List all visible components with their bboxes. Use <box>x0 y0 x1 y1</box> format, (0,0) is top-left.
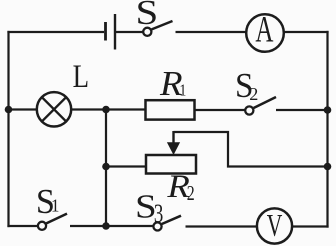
switch S1 blade (open) <box>46 214 67 224</box>
svg-text:A: A <box>255 9 273 50</box>
junction dot: right wire x S2 row <box>324 106 332 114</box>
svg-text:L: L <box>73 57 89 94</box>
wire S3 to voltmeter <box>186 225 258 227</box>
wire top row: left corner to battery negative plate <box>7 31 104 33</box>
rheostat R2 wiper arrow stem <box>172 131 174 145</box>
svg-text:2: 2 <box>249 84 258 104</box>
switch S1 pivot circle <box>38 222 46 230</box>
wire S2 to right wire <box>276 109 328 111</box>
label R2 subscript 2 <box>187 182 195 204</box>
battery positive plate (long bar) <box>114 14 116 50</box>
svg-text:2: 2 <box>187 182 195 204</box>
label R1 (resistor) <box>159 64 183 103</box>
svg-text:3: 3 <box>154 199 163 228</box>
rheostat R2 body <box>146 155 196 174</box>
switch S3 pivot circle <box>153 222 161 230</box>
junction dot: middle wire top (lamp row) <box>102 106 110 114</box>
svg-text:1: 1 <box>51 195 59 216</box>
svg-text:1: 1 <box>179 81 186 99</box>
resistor R1 body <box>146 100 195 119</box>
rheostat R2 wiper arrow head <box>167 142 180 155</box>
wire ammeter to top-right corner <box>284 31 329 33</box>
wire wiper up over and to right wire <box>174 132 328 167</box>
lamp L cross diagonal 2 <box>42 97 66 121</box>
svg-text:V: V <box>267 208 283 243</box>
label R2 (rheostat) <box>166 168 189 205</box>
ammeter A body circle <box>246 14 284 52</box>
lamp L body circle <box>37 92 71 126</box>
battery negative plate (short bar) <box>104 22 107 41</box>
switch S2 pivot circle <box>245 106 253 114</box>
junction dot: middle wire x R2 row <box>102 163 110 171</box>
wire right vertical (top-right corner to bottom-right corner) <box>326 31 328 228</box>
wire switch S to ammeter <box>176 31 247 33</box>
junction dot: left wire x lamp row <box>5 106 13 114</box>
ammeter letter A <box>255 9 273 50</box>
wire middle vertical (lamp row down to bottom row) <box>105 110 107 227</box>
lamp L cross diagonal 1 <box>42 97 66 121</box>
voltmeter letter V <box>267 208 283 243</box>
junction dot: middle wire x bottom row <box>102 222 110 230</box>
wire bottom row: left corner to switch S1 <box>7 225 38 227</box>
switch S blade (open) <box>152 21 173 29</box>
label S1 subscript 1 <box>51 195 59 216</box>
switch S pivot circle <box>143 28 151 36</box>
label S3 (switch) <box>135 187 157 225</box>
label L (lamp) <box>73 57 89 94</box>
wire R1 to switch S2 <box>195 109 246 111</box>
label S2 subscript 2 <box>249 84 258 104</box>
voltmeter V body circle <box>257 208 292 243</box>
wire battery to switch S <box>116 31 143 33</box>
wire lamp to resistor R1 <box>71 108 145 110</box>
wire voltmeter to bottom-right corner <box>292 225 329 227</box>
label S2 (switch) <box>235 67 253 105</box>
junction dot: right wire x R2 branch <box>324 163 332 171</box>
label S3 subscript 3 <box>154 199 163 228</box>
wire left vertical (top-left corner to bottom-left corner) <box>7 31 9 227</box>
wire lamp row: left wire to lamp <box>7 108 37 110</box>
switch S2 blade (open) <box>254 97 276 108</box>
wire middle node to rheostat R2 <box>106 165 147 167</box>
switch S3 blade (open) <box>162 216 181 224</box>
label S1 (switch) <box>36 183 55 221</box>
label R1 subscript 1 <box>179 81 186 99</box>
wire S1 to switch S3 <box>70 225 154 227</box>
label S (switch S) <box>136 0 159 32</box>
svg-text:S: S <box>136 0 159 32</box>
